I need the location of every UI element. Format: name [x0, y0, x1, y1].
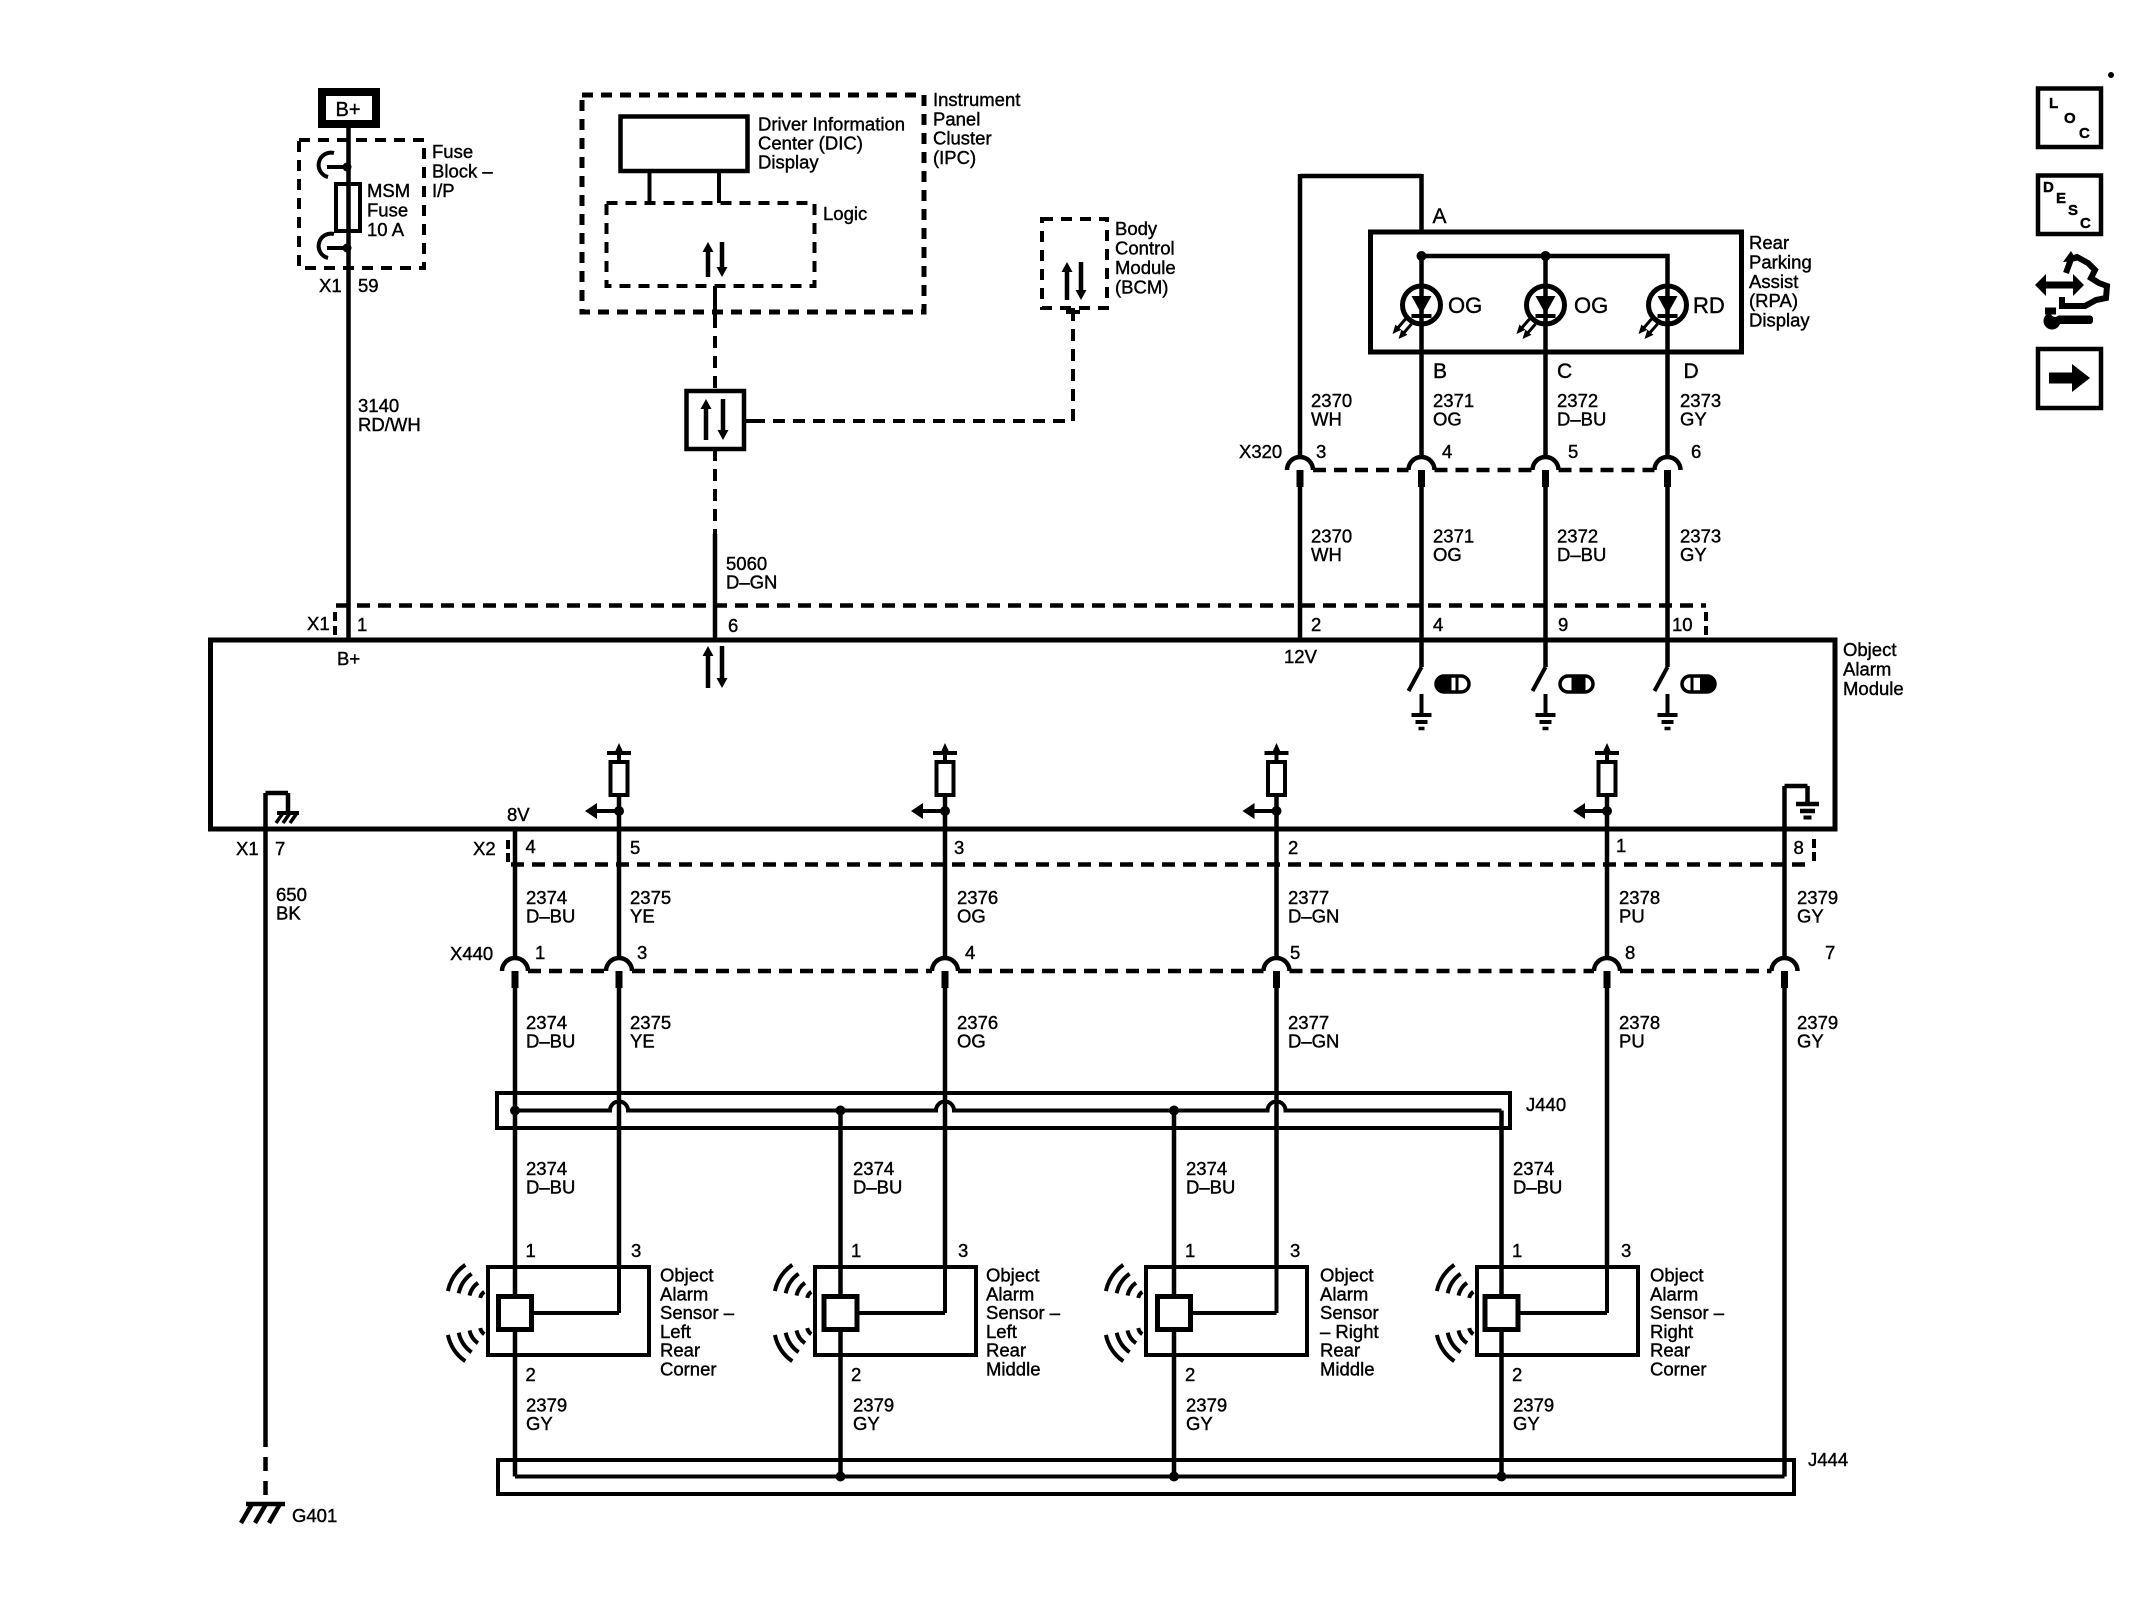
svg-text:3: 3 [631, 1240, 641, 1261]
svg-text:GY: GY [526, 1413, 553, 1434]
wire module X2-4 down to X440 [513, 831, 518, 958]
X2 right separator [1812, 839, 1816, 861]
svg-text:2: 2 [1311, 614, 1321, 635]
wire J440 to sensor4 pin1 (2374 D-BU) [1499, 1111, 1504, 1297]
wire labels row below X440 [526, 1012, 1838, 1052]
LOC letters [2049, 95, 2090, 142]
svg-text:6: 6 [1691, 441, 1701, 462]
svg-text:Alarm: Alarm [1843, 659, 1891, 680]
svg-text:Center (DIC): Center (DIC) [758, 133, 863, 154]
svg-text:D–BU: D–BU [526, 1031, 575, 1052]
svg-text:G401: G401 [292, 1505, 337, 1526]
svg-text:OG: OG [1448, 293, 1482, 318]
svg-text:D–BU: D–BU [1186, 1177, 1235, 1198]
svg-text:WH: WH [1311, 544, 1342, 565]
svg-text:2: 2 [851, 1364, 861, 1385]
wire J440 to sensor3 pin1 (2374 D-BU) [1172, 1111, 1177, 1297]
wire X440-8 to sensor4 pin3 (2378 PU) [1605, 988, 1610, 1265]
svg-text:D–BU: D–BU [1557, 544, 1606, 565]
X320 pin 3 terminal [1287, 457, 1313, 470]
svg-text:OG: OG [957, 906, 986, 927]
sensor internal wiring pin 3 [617, 1265, 621, 1313]
svg-text:S: S [2068, 202, 2078, 219]
svg-text:Module: Module [1843, 678, 1904, 699]
wire X320-6 to module X1-10 [1665, 487, 1670, 638]
svg-text:OG: OG [1574, 293, 1608, 318]
sensor pin 1 labels [526, 1240, 1523, 1261]
svg-text:1: 1 [535, 942, 545, 963]
wire module X2-1 down to X440 [1605, 831, 1610, 958]
wire RPA pin A to module X1-2 (upper run) [1300, 174, 1422, 456]
RPA internal bus [1422, 256, 1668, 353]
svg-text:PU: PU [1619, 906, 1645, 927]
svg-text:Display: Display [1749, 310, 1810, 331]
svg-text:2: 2 [1185, 1364, 1195, 1385]
svg-text:1: 1 [1185, 1240, 1195, 1261]
object alarm sensor box (Left Rear Corner) [488, 1267, 649, 1355]
junction dot J444 s3 [1169, 1472, 1179, 1482]
svg-text:Display: Display [758, 152, 819, 173]
svg-text:2: 2 [526, 1364, 536, 1385]
svg-text:YE: YE [630, 906, 655, 927]
fuse MSM 10A element [336, 184, 360, 231]
junction dot J444 s4 [1497, 1472, 1507, 1482]
LED indicator (OG) at x=1545.5 [1517, 286, 1565, 339]
svg-text:Assist: Assist [1749, 271, 1798, 292]
splice pack J444 box [498, 1460, 1794, 1494]
module connector X2 dashed row [511, 862, 1812, 867]
svg-text:RD: RD [1693, 293, 1725, 318]
svg-text:4: 4 [1433, 614, 1443, 635]
svg-text:OG: OG [957, 1031, 986, 1052]
svg-text:3: 3 [637, 942, 647, 963]
svg-text:59: 59 [358, 275, 379, 296]
J444 internal bus [515, 1475, 1785, 1479]
ground G401 symbol [241, 1504, 285, 1523]
DIC display box [621, 117, 748, 172]
svg-text:5: 5 [630, 837, 640, 858]
svg-text:6: 6 [728, 615, 738, 636]
object alarm sensor box (Left Rear Middle) [815, 1267, 976, 1355]
svg-text:L: L [2049, 95, 2058, 112]
svg-text:Panel: Panel [933, 108, 980, 129]
svg-text:YE: YE [630, 1031, 655, 1052]
svg-text:1: 1 [357, 614, 367, 635]
X440 pin 8 terminal [1594, 958, 1620, 971]
X1 right separator [1704, 612, 1708, 635]
position indicator at x=1545.5 [1560, 676, 1593, 692]
module internal ground right (X2-8) [1785, 786, 1820, 829]
position indicator at x=1667.5 [1682, 676, 1715, 692]
wire RPA pin D to X320-6 [1665, 353, 1670, 456]
X440 pin 1 terminal [502, 958, 528, 971]
svg-text:D: D [2043, 179, 2054, 196]
sensor transducer square [499, 1297, 532, 1330]
svg-text:3: 3 [1621, 1240, 1631, 1261]
svg-text:1: 1 [851, 1240, 861, 1261]
svg-text:1: 1 [1512, 1240, 1522, 1261]
svg-text:J444: J444 [1808, 1449, 1848, 1470]
wire module X2-3 down to X440 [943, 831, 948, 958]
wires sensor pin2 to J444 (2379 GY) [515, 1330, 1502, 1477]
wire DIC to logic right [717, 171, 721, 203]
wire serial box to BCM [744, 308, 1080, 421]
resistor (internal) at x=1607 [1573, 743, 1619, 829]
ultrasonic waves icon [775, 1265, 811, 1361]
B+ power symbol [322, 92, 376, 124]
svg-text:B: B [1433, 360, 1447, 383]
svg-text:D–GN: D–GN [1288, 906, 1339, 927]
svg-text:Middle: Middle [986, 1359, 1041, 1380]
svg-text:GY: GY [1797, 906, 1824, 927]
svg-text:OG: OG [1433, 409, 1462, 430]
svg-text:X1: X1 [236, 838, 259, 859]
svg-text:D–BU: D–BU [1557, 409, 1606, 430]
wire X440-4 to sensor2 pin3 (2376 OG) [943, 988, 948, 1265]
X320 pin 6 terminal [1655, 457, 1681, 470]
serial data box [687, 391, 745, 449]
svg-text:GY: GY [1797, 1031, 1824, 1052]
rear parking assist RPA display box [1371, 232, 1742, 352]
svg-text:10: 10 [1672, 614, 1693, 635]
wire X440-5 to sensor3 pin3 (2377 D-GN) [1274, 988, 1279, 1265]
svg-text:5: 5 [1568, 441, 1578, 462]
svg-text:D–BU: D–BU [526, 906, 575, 927]
svg-text:GY: GY [1186, 1413, 1213, 1434]
svg-text:OG: OG [1433, 544, 1462, 565]
wire bus to LED2 [1543, 256, 1548, 353]
svg-text:Body: Body [1115, 218, 1158, 239]
svg-text:J440: J440 [1526, 1094, 1566, 1115]
X440 pin 7 terminal [1772, 958, 1798, 971]
wire 5060 D-GN serial data to module X1-6 [713, 449, 717, 638]
wire labels 2370 WH 2371 OG 2372 D-BU 2373 GY (lower) [1311, 526, 1721, 566]
object alarm module U1 box [211, 640, 1836, 829]
svg-text:7: 7 [275, 838, 285, 859]
svg-text:I/P: I/P [432, 180, 455, 201]
wire labels row below X2 [526, 887, 1838, 927]
svg-text:2: 2 [1288, 837, 1298, 858]
wire labels 2374 D-BU row to sensors [526, 1158, 1562, 1198]
wire labels 2370 WH 2371 OG 2372 D-BU 2373 GY (upper) [1311, 390, 1721, 430]
X440 pin 3 terminal [606, 958, 632, 971]
svg-text:B+: B+ [337, 648, 360, 669]
wire X320-3 to module X1-2 [1298, 487, 1303, 638]
svg-text:D–BU: D–BU [853, 1177, 902, 1198]
sensor internal wiring pin 3 [943, 1265, 947, 1313]
BCM serial arrows [1062, 262, 1087, 300]
svg-text:12V: 12V [1284, 646, 1318, 667]
svg-text:RD/WH: RD/WH [358, 414, 421, 435]
LED indicator (RD) at x=1667.5 [1639, 286, 1687, 339]
svg-text:D–GN: D–GN [726, 572, 777, 593]
svg-text:GY: GY [1680, 409, 1707, 430]
junction dot bus pin A [1417, 251, 1427, 261]
J440 internal bus with hops [515, 1102, 1502, 1111]
svg-text:O: O [2064, 110, 2076, 127]
svg-text:X440: X440 [450, 943, 493, 964]
sensor transducer square [1485, 1297, 1518, 1330]
svg-text:3: 3 [958, 1240, 968, 1261]
X320 pin 4 terminal [1409, 457, 1435, 470]
svg-text:8V: 8V [507, 804, 530, 825]
svg-text:B+: B+ [335, 99, 360, 121]
svg-text:C: C [2079, 125, 2090, 142]
junction dot J440 left [510, 1106, 520, 1116]
sensor pin 3 labels [631, 1240, 1631, 1261]
svg-text:Object: Object [1843, 639, 1896, 660]
svg-text:Fuse: Fuse [432, 141, 473, 162]
svg-text:D: D [1684, 360, 1699, 383]
diagnostic icon wrench [2044, 308, 2094, 330]
sensor internal wiring pin 3 [1605, 1265, 1609, 1313]
resistor (internal) at x=945 [911, 743, 957, 829]
svg-text:3: 3 [1290, 1240, 1300, 1261]
LOC icon box [2038, 89, 2101, 148]
svg-text:1: 1 [1616, 835, 1626, 856]
wire bus to LED1 [1419, 256, 1424, 353]
svg-text:E: E [2056, 190, 2066, 207]
module internal serial arrows [703, 646, 728, 688]
sensor internal wiring pin 3 [1275, 1265, 1279, 1313]
svg-text:3: 3 [1316, 441, 1326, 462]
resistor (internal) at x=619 [585, 743, 631, 829]
switch to ground (internal) at x=1545.5 [1533, 642, 1556, 729]
svg-text:4: 4 [526, 836, 536, 857]
svg-text:BK: BK [276, 903, 301, 924]
sensor pin 2 labels [526, 1364, 1523, 1385]
junction dot J440 mid1 [836, 1106, 846, 1116]
wire module X2-8 down to J444 (2379 GY) [1782, 831, 1787, 958]
svg-text:Instrument: Instrument [933, 89, 1020, 110]
wire module X2-2 down to X440 [1274, 831, 1279, 958]
svg-text:D–BU: D–BU [1513, 1177, 1562, 1198]
wire logic to serial data box [713, 286, 717, 316]
junction dot bus LED2 [1541, 251, 1551, 261]
wire RPA pin B to X320-4 [1419, 353, 1424, 456]
svg-text:D–BU: D–BU [526, 1177, 575, 1198]
X1 separator [333, 612, 337, 635]
LED indicator (OG) at x=1421.5 [1393, 286, 1441, 339]
X440 pin 5 terminal [1264, 958, 1290, 971]
svg-text:Corner: Corner [660, 1359, 717, 1380]
svg-text:(RPA): (RPA) [1749, 290, 1798, 311]
wire X320-4 to module X1-4 [1419, 487, 1424, 638]
wire X440-1 to J440 splice (2374 D-BU) [513, 988, 518, 1111]
wire DIC to logic left [648, 171, 652, 203]
serial data arrows [701, 399, 729, 440]
svg-text:8: 8 [1794, 837, 1804, 858]
position indicator at x=1421.5 [1436, 676, 1469, 692]
DESC icon box [2038, 176, 2101, 235]
LED color labels [1448, 293, 1725, 318]
module internal ground left (X1-7) [266, 793, 300, 829]
svg-text:Fuse: Fuse [367, 200, 408, 221]
svg-text:Logic: Logic [823, 203, 867, 224]
switch to ground (internal) at x=1667.5 [1655, 642, 1678, 729]
ultrasonic waves icon [1106, 1265, 1142, 1361]
next page arrow [2049, 364, 2090, 392]
logic serial data arrows [703, 242, 728, 277]
sensor transducer square [824, 1297, 857, 1330]
svg-text:Block –: Block – [432, 161, 493, 182]
svg-text:5: 5 [1290, 942, 1300, 963]
connector X440 dashed line [528, 969, 1772, 974]
svg-text:Corner: Corner [1650, 1359, 1707, 1380]
instrument panel cluster IPC dashed box [582, 95, 924, 312]
fuse block dashed box [299, 140, 424, 268]
svg-text:WH: WH [1311, 409, 1342, 430]
body control module BCM dashed box [1042, 219, 1107, 308]
wire module X2-5 down to X440 [617, 831, 622, 958]
svg-text:GY: GY [1680, 544, 1707, 565]
wire X440-3 to sensor1 pin3 (2375 YE) [617, 988, 622, 1265]
svg-text:1: 1 [526, 1240, 536, 1261]
ultrasonic waves icon [448, 1265, 484, 1361]
svg-text:3140: 3140 [358, 395, 399, 416]
X440 pin 4 terminal [932, 958, 958, 971]
svg-text:X1: X1 [307, 613, 330, 634]
svg-text:8: 8 [1625, 942, 1635, 963]
svg-text:C: C [2080, 215, 2091, 232]
svg-text:Control: Control [1115, 238, 1175, 259]
svg-text:GY: GY [1513, 1413, 1540, 1434]
fuse lower clip [319, 234, 352, 258]
svg-text:GY: GY [853, 1413, 880, 1434]
svg-text:(IPC): (IPC) [933, 147, 976, 168]
svg-text:D–GN: D–GN [1288, 1031, 1339, 1052]
svg-text:PU: PU [1619, 1031, 1645, 1052]
svg-text:3: 3 [954, 837, 964, 858]
svg-text:10 A: 10 A [367, 219, 405, 240]
object alarm sensor box (Right Rear Corner) [1477, 1267, 1638, 1355]
svg-text:7: 7 [1825, 942, 1835, 963]
svg-text:Cluster: Cluster [933, 128, 992, 149]
svg-text:MSM: MSM [367, 180, 410, 201]
wire J440 to sensor1 pin1 (2374 D-BU) [513, 1111, 518, 1297]
wire J440 to sensor2 pin1 (2374 D-BU) [838, 1111, 843, 1297]
diagnostic icon outline [2062, 257, 2107, 306]
switch to ground (internal) at x=1421.5 [1409, 642, 1432, 729]
fuse F-MSM upper clip [319, 153, 352, 177]
connector X320 dashed line [1313, 468, 1655, 473]
svg-text:(BCM): (BCM) [1115, 277, 1168, 298]
svg-text:2: 2 [1512, 1364, 1522, 1385]
wire B+ to fuse block to X1-1 [346, 128, 351, 638]
wire X320-5 to module X1-9 [1543, 487, 1548, 638]
svg-text:Rear: Rear [1749, 232, 1789, 253]
svg-text:X1: X1 [319, 275, 342, 296]
svg-text:C: C [1557, 360, 1572, 383]
connector X1 pin 59 label [319, 275, 379, 296]
X320 pin 5 terminal [1533, 457, 1559, 470]
DESC letters [2043, 179, 2091, 232]
svg-text:4: 4 [1442, 441, 1452, 462]
ultrasonic waves icon [1437, 1265, 1473, 1361]
svg-text:Driver Information: Driver Information [758, 114, 905, 135]
svg-text:9: 9 [1558, 614, 1568, 635]
svg-text:Middle: Middle [1320, 1359, 1375, 1380]
wire X440-7 to J444 (2379 GY) [1782, 988, 1787, 1477]
wire labels 2379 GY row to J444 [526, 1395, 1554, 1435]
module connector X1 dashed row [336, 603, 1706, 608]
logic dashed box [607, 203, 815, 286]
svg-text:X320: X320 [1239, 441, 1282, 462]
resistor (internal) at x=1276.5 [1243, 743, 1289, 829]
page mark dot [2108, 72, 2114, 78]
next page arrow icon box [2038, 349, 2101, 408]
junction dot J444 s2 [836, 1472, 846, 1482]
diagnostic icon double arrow [2035, 274, 2084, 296]
sensor transducer square [1158, 1297, 1191, 1330]
wire RPA pin C to X320-5 [1543, 353, 1548, 456]
X2 separator [506, 840, 510, 862]
svg-text:Parking: Parking [1749, 251, 1812, 272]
svg-text:X2: X2 [473, 838, 496, 859]
splice pack J440 box [497, 1093, 1510, 1128]
svg-text:4: 4 [965, 942, 975, 963]
junction dot J440 mid2 [1169, 1106, 1179, 1116]
svg-text:Module: Module [1115, 257, 1176, 278]
wire module X1-7 to G401 (650 BK) [263, 831, 268, 1502]
object alarm sensor box (Right Rear Middle) [1146, 1267, 1307, 1355]
svg-text:A: A [1433, 205, 1447, 228]
